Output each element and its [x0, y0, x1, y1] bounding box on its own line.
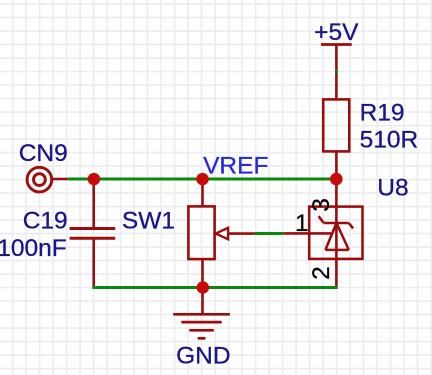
- svg-text:C19: C19: [23, 208, 68, 235]
- svg-text:VREF: VREF: [203, 152, 268, 179]
- svg-text:3: 3: [308, 198, 335, 212]
- svg-text:100nF: 100nF: [0, 235, 67, 262]
- svg-text:CN9: CN9: [19, 140, 68, 167]
- svg-text:SW1: SW1: [122, 208, 175, 235]
- svg-text:510R: 510R: [360, 127, 419, 154]
- svg-text:2: 2: [308, 266, 335, 280]
- svg-text:+5V: +5V: [314, 19, 359, 46]
- svg-text:U8: U8: [377, 174, 408, 201]
- svg-text:GND: GND: [176, 343, 230, 370]
- svg-text:1: 1: [295, 210, 309, 237]
- svg-text:R19: R19: [360, 99, 405, 126]
